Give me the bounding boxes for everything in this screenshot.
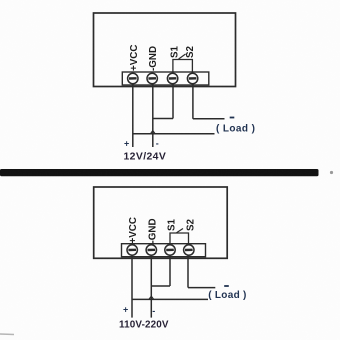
wire +V to load (top) [133,133,215,135]
terminal 4 S2 screw (bottom) [184,245,194,255]
terminal block TB1 (top) [122,72,209,85]
wire S1 down (bottom) [169,256,171,287]
switch blade SW (bottom) [177,229,184,233]
wire S1 to GND jog (bottom) [151,285,170,287]
wire +VCC down (bottom) [131,256,133,318]
controller box U1 (top, 12V/24V model) [94,13,236,87]
wire hop over GND (top) [150,131,155,134]
separator speck [330,171,333,174]
wire S2 to load (top) [193,118,225,120]
terminal 2 -GND screw (bottom) [146,245,156,255]
wire S1 to GND jog (top) [153,118,173,120]
wire -GND down (top) [152,84,154,147]
load negative mark (bottom) [224,285,229,287]
wire S2 to load (bottom) [188,287,215,289]
separator band [0,169,319,176]
page edge smudge bottom-left [0,333,14,336]
relay contact link S1-S2 (bottom) [170,233,189,245]
terminal block TB2 (bottom) [122,244,206,257]
wire S2 down (bottom) [187,256,189,288]
wire +V to load (bottom) [132,298,208,300]
terminal 1 +VCC screw (top) [128,73,138,83]
wire hop over GND (bottom) [149,296,154,299]
terminal 3 S1 screw (top) [167,73,177,83]
switch blade SW (top) [179,54,186,59]
load negative mark (top) [230,117,235,119]
terminal 2 -GND screw (top) [147,73,157,83]
wire -GND down (bottom) [150,256,152,318]
wire S1 down (top) [172,84,174,119]
wire S2 down (top) [192,84,194,119]
terminal 3 S1 screw (bottom) [165,245,175,255]
controller box U2 (bottom, 110V-220V model) [94,187,228,258]
terminal 4 S2 screw (top) [187,73,197,83]
relay contact link S1-S2 (top) [173,60,193,74]
wire +VCC down (top) [132,84,134,147]
terminal 1 +VCC screw (bottom) [127,245,137,255]
